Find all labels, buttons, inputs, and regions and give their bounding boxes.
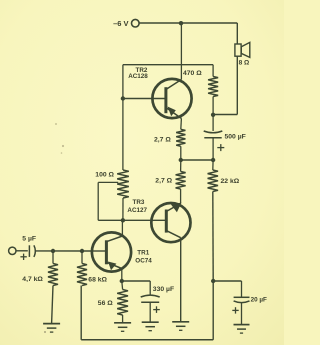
svg-text:AC128: AC128 <box>128 73 148 80</box>
svg-text:TR3: TR3 <box>133 199 145 206</box>
svg-text:–6 V: –6 V <box>113 19 128 28</box>
svg-text:AC127: AC127 <box>127 207 147 214</box>
svg-text:2,7 Ω: 2,7 Ω <box>154 136 171 143</box>
svg-text:68 kΩ: 68 kΩ <box>88 276 107 283</box>
svg-text:TR1: TR1 <box>137 250 149 257</box>
svg-text:100 Ω: 100 Ω <box>95 171 114 178</box>
svg-text:4,7 kΩ: 4,7 kΩ <box>22 276 43 283</box>
svg-text:20 µF: 20 µF <box>251 297 267 304</box>
svg-text:56 Ω: 56 Ω <box>98 300 113 307</box>
svg-text:500 µF: 500 µF <box>225 134 246 141</box>
svg-text:22 kΩ: 22 kΩ <box>221 178 240 185</box>
svg-text:470 Ω: 470 Ω <box>183 70 202 77</box>
svg-text:330 µF: 330 µF <box>153 286 174 293</box>
svg-text:5 µF: 5 µF <box>22 235 36 242</box>
svg-text:2,7 Ω: 2,7 Ω <box>155 178 172 185</box>
svg-text:OC74: OC74 <box>135 258 152 265</box>
svg-text:8 Ω: 8 Ω <box>239 60 250 67</box>
